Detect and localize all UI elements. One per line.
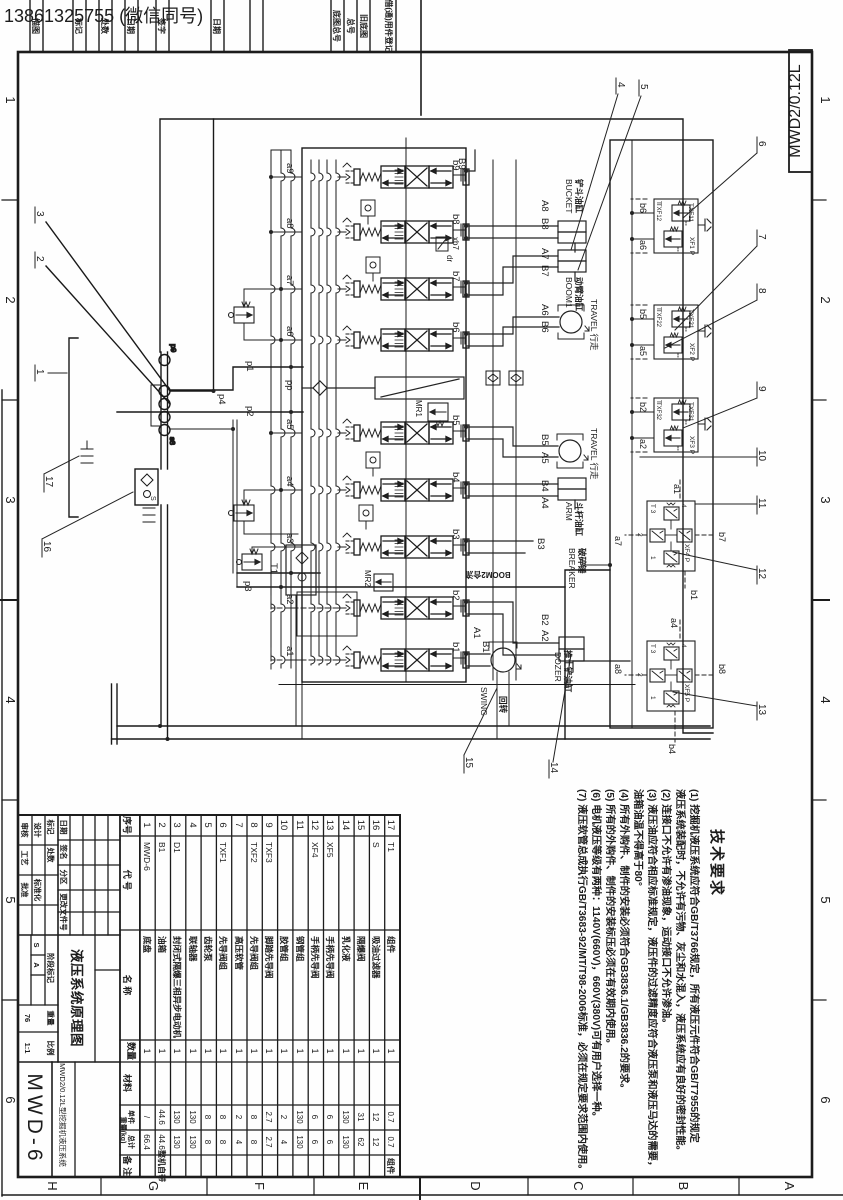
svg-text:4: 4 bbox=[234, 1140, 243, 1145]
T return risers bbox=[117, 725, 710, 727]
svg-text:8: 8 bbox=[756, 288, 767, 294]
zone numbers top bbox=[818, 96, 833, 1103]
svg-text:分区: 分区 bbox=[59, 870, 69, 885]
border outer bottom edge bbox=[1, 390, 3, 1196]
check valve inside block near a5 bbox=[366, 452, 380, 476]
svg-text:A7: A7 bbox=[539, 248, 550, 260]
svg-text:6: 6 bbox=[756, 141, 767, 147]
svg-text:胶管组: 胶管组 bbox=[279, 936, 289, 962]
svg-text:(7) 液压软管总成执行GB/T3683-92/MT/T98: (7) 液压软管总成执行GB/T3683-92/MT/T98-2006标准，必须… bbox=[576, 789, 589, 1174]
svg-text:8: 8 bbox=[218, 1115, 227, 1120]
svg-text:1: 1 bbox=[234, 1048, 244, 1053]
svg-text:xb7: xb7 bbox=[451, 237, 460, 250]
svg-text:处数: 处数 bbox=[46, 847, 56, 863]
svg-text:8: 8 bbox=[249, 1140, 258, 1145]
svg-text:联轴器: 联轴器 bbox=[188, 936, 198, 962]
svg-text:b4: b4 bbox=[667, 744, 677, 754]
p4 line bbox=[171, 390, 214, 392]
wire S2 to T risers bbox=[296, 595, 302, 739]
pump to block supply p2 bbox=[117, 411, 303, 413]
svg-text:1: 1 bbox=[141, 822, 152, 827]
svg-text:隔爆阀: 隔爆阀 bbox=[356, 936, 366, 962]
motor TRAVEL right bbox=[557, 434, 588, 468]
svg-text:D1: D1 bbox=[172, 842, 182, 853]
svg-text:组件: 组件 bbox=[386, 1158, 396, 1174]
svg-text:1: 1 bbox=[356, 1048, 366, 1053]
svg-text:15: 15 bbox=[355, 820, 366, 831]
svg-text:2.7: 2.7 bbox=[264, 1136, 273, 1148]
pedal marks pilot valves bbox=[698, 219, 711, 430]
svg-text:1: 1 bbox=[142, 1048, 152, 1053]
svg-text:8: 8 bbox=[203, 1140, 212, 1145]
svg-text:总号: 总号 bbox=[346, 18, 356, 34]
svg-text:5: 5 bbox=[202, 822, 213, 827]
svg-text:1: 1 bbox=[310, 1048, 320, 1053]
suction diagonal wire 2 bbox=[46, 266, 170, 404]
parts list column lines bbox=[120, 835, 400, 837]
svg-text:更改文件号: 更改文件号 bbox=[59, 893, 69, 931]
wire bucket bbox=[466, 226, 558, 238]
callout 4 bbox=[571, 78, 626, 250]
svg-text:dr: dr bbox=[445, 255, 454, 262]
svg-text:重量: 重量 bbox=[46, 1011, 56, 1027]
svg-text:44.6: 44.6 bbox=[157, 1134, 166, 1150]
svg-text:B5: B5 bbox=[539, 434, 550, 446]
svg-text:封闭式隔爆三相异步电动机: 封闭式隔爆三相异步电动机 bbox=[172, 936, 182, 1039]
pilot valve XF3 bbox=[632, 398, 698, 452]
callout 1 bbox=[34, 365, 67, 381]
svg-text:a3: a3 bbox=[284, 533, 295, 544]
svg-text:旧底图: 旧底图 bbox=[359, 14, 369, 38]
svg-text:手柄先导阀: 手柄先导阀 bbox=[310, 936, 320, 979]
svg-text:1: 1 bbox=[172, 1048, 182, 1053]
pilot valve XF2 bbox=[632, 305, 698, 359]
svg-text:p9: p9 bbox=[169, 344, 178, 352]
svg-text:D: D bbox=[468, 1181, 483, 1190]
svg-text:B1: B1 bbox=[480, 641, 491, 653]
svg-text:1: 1 bbox=[249, 1048, 259, 1053]
svg-text:a2: a2 bbox=[638, 439, 648, 449]
cylinder ARM bbox=[558, 478, 586, 509]
svg-text:BREAKER: BREAKER bbox=[567, 548, 577, 589]
svg-text:a5: a5 bbox=[638, 346, 648, 356]
svg-text:单件: 单件 bbox=[127, 1110, 136, 1124]
zone tick marks right edge bbox=[738, 1177, 740, 1195]
svg-text:6: 6 bbox=[325, 1140, 334, 1145]
valve section a9 bbox=[338, 163, 469, 188]
svg-text:G: G bbox=[146, 1181, 161, 1191]
svg-text:p2: p2 bbox=[244, 406, 255, 417]
suction diagonal wire 1 bbox=[46, 222, 170, 391]
callout 13 bbox=[673, 692, 767, 720]
svg-text:MWD-6: MWD-6 bbox=[23, 1073, 46, 1164]
section feed stubs and junction dots bbox=[271, 177, 302, 660]
svg-text:4: 4 bbox=[3, 696, 18, 703]
svg-text:4: 4 bbox=[279, 1140, 288, 1145]
svg-text:阶段标记: 阶段标记 bbox=[46, 953, 56, 983]
svg-text:XF1 P: XF1 P bbox=[688, 237, 695, 255]
svg-text:p3: p3 bbox=[242, 581, 253, 592]
svg-text:备 注: 备 注 bbox=[122, 1155, 133, 1177]
svg-text:脚踏先导阀: 脚踏先导阀 bbox=[264, 936, 274, 979]
svg-text:TRAVEL 行走: TRAVEL 行走 bbox=[589, 428, 599, 480]
svg-text:8: 8 bbox=[248, 822, 259, 827]
svg-text:A4: A4 bbox=[539, 497, 550, 509]
svg-text:T1: T1 bbox=[268, 563, 279, 574]
svg-text:A6: A6 bbox=[539, 304, 550, 316]
svg-text:MR2: MR2 bbox=[363, 570, 372, 587]
outer boundary polyline bbox=[214, 119, 714, 733]
svg-text:76: 76 bbox=[23, 1014, 32, 1022]
svg-text:手柄先导阀: 手柄先导阀 bbox=[325, 936, 335, 979]
svg-text:b6: b6 bbox=[450, 322, 461, 333]
svg-text:3: 3 bbox=[3, 496, 18, 503]
pump circle gauge bbox=[159, 355, 170, 366]
svg-text:a4: a4 bbox=[669, 618, 679, 628]
svg-text:批准: 批准 bbox=[20, 883, 30, 898]
drive shaft double line bbox=[167, 352, 169, 469]
callout 8 bbox=[665, 284, 767, 348]
svg-text:1: 1 bbox=[218, 1048, 228, 1053]
svg-text:a4: a4 bbox=[284, 476, 295, 487]
motor TRAVEL left bbox=[558, 305, 589, 339]
svg-text:S: S bbox=[149, 496, 156, 501]
svg-text:BOOM1: BOOM1 bbox=[564, 277, 574, 308]
svg-text:H: H bbox=[45, 1181, 60, 1190]
pilot source block S2 bbox=[286, 545, 320, 595]
svg-text:A1: A1 bbox=[471, 627, 482, 639]
compensator under a3 bbox=[237, 549, 263, 570]
svg-text:TXF22: TXF22 bbox=[655, 309, 661, 328]
svg-text:130: 130 bbox=[295, 1135, 304, 1149]
svg-text:B8: B8 bbox=[539, 218, 550, 230]
parts list texts bbox=[119, 816, 137, 1176]
callout 17 bbox=[43, 456, 79, 492]
svg-text:组件: 组件 bbox=[386, 936, 396, 954]
svg-text:a9: a9 bbox=[284, 163, 295, 174]
svg-text:审核: 审核 bbox=[20, 823, 30, 838]
svg-text:5: 5 bbox=[818, 896, 833, 903]
svg-text:7: 7 bbox=[756, 234, 767, 240]
title area texts bbox=[20, 819, 69, 1057]
svg-text:底盘: 底盘 bbox=[142, 936, 152, 954]
svg-text:B2: B2 bbox=[539, 614, 550, 626]
svg-text:F: F bbox=[252, 1182, 267, 1190]
svg-text:TXF3: TXF3 bbox=[264, 842, 274, 863]
svg-text:b7: b7 bbox=[450, 271, 461, 282]
callout 3 bbox=[34, 207, 45, 223]
zone tick marks bottom edge bbox=[2, 199, 18, 201]
cylinder BUCKET bbox=[558, 221, 586, 252]
callout 12 bbox=[673, 552, 767, 584]
svg-text:DOZER: DOZER bbox=[553, 652, 563, 682]
svg-text:17: 17 bbox=[43, 476, 54, 488]
svg-text:TXF11: TXF11 bbox=[687, 203, 694, 222]
pump casing bracket bbox=[151, 385, 160, 426]
svg-text:8: 8 bbox=[218, 1140, 227, 1145]
svg-text:31: 31 bbox=[356, 1113, 365, 1122]
callout 9 bbox=[683, 382, 767, 428]
svg-text:2: 2 bbox=[818, 296, 833, 303]
svg-text:9: 9 bbox=[756, 386, 767, 392]
a-port ladder bus below block bbox=[271, 150, 295, 668]
zone letters right edge bbox=[45, 1181, 797, 1191]
svg-text:130: 130 bbox=[341, 1110, 350, 1124]
svg-text:T: T bbox=[655, 400, 662, 404]
svg-text:钢管组: 钢管组 bbox=[295, 936, 305, 962]
corner registration box MWD2/0.12L bbox=[787, 50, 812, 172]
svg-text:XF3 P: XF3 P bbox=[688, 436, 695, 454]
svg-text:10: 10 bbox=[278, 820, 289, 831]
svg-text:XF5 P: XF5 P bbox=[683, 684, 690, 702]
svg-text:8: 8 bbox=[249, 1115, 258, 1120]
svg-text:1: 1 bbox=[157, 1048, 167, 1053]
svg-text:b8: b8 bbox=[717, 664, 727, 674]
svg-text:66.4: 66.4 bbox=[142, 1134, 151, 1150]
svg-text:BOOM2合流: BOOM2合流 bbox=[465, 570, 510, 580]
valve section a5 bbox=[338, 419, 469, 444]
pump links to p3/T1 bbox=[236, 420, 238, 587]
svg-text:MWD2/0.12L: MWD2/0.12L bbox=[787, 64, 804, 157]
svg-text:A5: A5 bbox=[539, 452, 550, 464]
svg-text:(1) 挖掘机液压系统应符合GB/T3766规定，所有液压元: (1) 挖掘机液压系统应符合GB/T3766规定，所有液压元件符合GB/T795… bbox=[688, 789, 701, 1144]
svg-text:0.7: 0.7 bbox=[386, 1136, 395, 1148]
svg-text:C: C bbox=[571, 1181, 586, 1190]
svg-text:14: 14 bbox=[340, 820, 351, 831]
callout 7 bbox=[675, 230, 767, 330]
T line to pilot bbox=[279, 684, 635, 686]
valve section a3 bbox=[338, 533, 469, 558]
svg-text:代 号: 代 号 bbox=[122, 869, 133, 891]
pilot valve XF1 bbox=[632, 199, 698, 253]
svg-text:高压软管: 高压软管 bbox=[234, 936, 244, 971]
svg-text:齿轮泵: 齿轮泵 bbox=[203, 936, 213, 962]
svg-text:1: 1 bbox=[341, 1048, 351, 1053]
svg-text:b4: b4 bbox=[450, 472, 461, 483]
svg-text:油箱: 油箱 bbox=[157, 936, 167, 954]
a2 section enclosure rect bbox=[297, 592, 357, 636]
svg-text:B7: B7 bbox=[539, 265, 550, 277]
svg-text:1: 1 bbox=[325, 1048, 335, 1053]
svg-text:先导阀组: 先导阀组 bbox=[249, 936, 259, 971]
svg-text:B1: B1 bbox=[157, 842, 167, 853]
svg-text:1: 1 bbox=[649, 556, 656, 560]
svg-text:(3) 液压油应符合相应标准规定，液压件的过滤精度应符合液压: (3) 液压油应符合相应标准规定，液压件的过滤精度应符合液压泵和液压马达的需要， bbox=[646, 789, 659, 1171]
svg-text:2: 2 bbox=[279, 1115, 288, 1120]
svg-text:斗杆油缸: 斗杆油缸 bbox=[574, 502, 584, 537]
svg-text:B6: B6 bbox=[539, 321, 550, 333]
svg-text:B4: B4 bbox=[539, 480, 550, 492]
svg-text:TXF12: TXF12 bbox=[655, 203, 661, 222]
svg-text:重量(kg): 重量(kg) bbox=[119, 1117, 128, 1144]
svg-text:13: 13 bbox=[324, 820, 335, 831]
check valve inside block near a8 bbox=[366, 257, 380, 281]
wire breaker bbox=[466, 541, 533, 553]
svg-text:回转: 回转 bbox=[498, 696, 508, 714]
svg-text:b7: b7 bbox=[717, 532, 727, 542]
valve section a8 bbox=[338, 218, 469, 243]
svg-text:MWD2/0.12L型挖掘机液压系统: MWD2/0.12L型挖掘机液压系统 bbox=[58, 1063, 68, 1167]
svg-text:液压系统装配时，不允许有污物、灰尘和水混入，液压系统应有良好: 液压系统装配时，不允许有污物、灰尘和水混入，液压系统应有良好的密封性能。 bbox=[674, 789, 687, 1156]
svg-text:TRAVEL 行走: TRAVEL 行走 bbox=[589, 299, 599, 351]
wire BOOM2 merge bbox=[581, 564, 610, 566]
svg-text:130: 130 bbox=[341, 1135, 350, 1149]
svg-text:SWING: SWING bbox=[479, 687, 489, 716]
svg-text:XF5: XF5 bbox=[325, 842, 335, 858]
svg-text:s8: s8 bbox=[168, 437, 177, 445]
svg-text:9: 9 bbox=[263, 822, 274, 827]
svg-text:(5) 所有的外购件、制件的安装标压必须在有效期内使用。: (5) 所有的外购件、制件的安装标压必须在有效期内使用。 bbox=[604, 789, 617, 1049]
svg-text:底图总号: 底图总号 bbox=[332, 9, 342, 42]
check valve inside block near a9 bbox=[361, 200, 375, 224]
svg-text:TXF2: TXF2 bbox=[249, 842, 259, 863]
svg-text:液压系统原理图: 液压系统原理图 bbox=[69, 949, 85, 1047]
svg-text:整机自带: 整机自带 bbox=[157, 1149, 167, 1182]
svg-text:吸油过滤器: 吸油过滤器 bbox=[371, 936, 381, 979]
work port lines to actuators bbox=[466, 150, 630, 666]
svg-text:序号: 序号 bbox=[122, 816, 133, 834]
svg-text:11: 11 bbox=[756, 498, 767, 509]
svg-text:8: 8 bbox=[203, 1115, 212, 1120]
svg-text:A: A bbox=[782, 1182, 797, 1191]
compensator under a4 bbox=[229, 500, 255, 521]
svg-text:(2) 连接口不允许有渗油现象，运动接口不允许渗油。: (2) 连接口不允许有渗油现象，运动接口不允许渗油。 bbox=[660, 789, 673, 1028]
zone numbers bottom bbox=[3, 96, 18, 1103]
svg-text:11: 11 bbox=[294, 820, 305, 830]
svg-text:13861325755 (微信同号): 13861325755 (微信同号) bbox=[4, 6, 203, 26]
svg-text:4: 4 bbox=[187, 822, 198, 827]
svg-text:b8: b8 bbox=[450, 214, 461, 225]
valve section a1 bbox=[338, 646, 469, 671]
callout 5 bbox=[578, 80, 649, 270]
svg-text:3: 3 bbox=[34, 211, 45, 217]
parts list row lines bbox=[384, 815, 386, 1177]
svg-text:T 3: T 3 bbox=[649, 644, 656, 654]
svg-text:7: 7 bbox=[233, 822, 244, 827]
cylinder DOZER bbox=[559, 637, 584, 672]
relief valve MR2 bbox=[374, 574, 393, 591]
svg-text:B: B bbox=[676, 1182, 691, 1191]
svg-text:T1: T1 bbox=[386, 842, 396, 852]
wire travel2 bbox=[466, 427, 558, 457]
svg-text:借(通)用件登记: 借(通)用件登记 bbox=[384, 0, 394, 53]
svg-text:1: 1 bbox=[188, 1048, 198, 1053]
svg-text:130: 130 bbox=[172, 1110, 181, 1124]
svg-text:12: 12 bbox=[371, 1113, 380, 1122]
pilot P line bbox=[515, 160, 517, 680]
svg-text:1: 1 bbox=[264, 1048, 274, 1053]
T1 riser bbox=[237, 572, 320, 574]
svg-text:1: 1 bbox=[295, 1048, 305, 1053]
compensator under a7 bbox=[229, 302, 255, 323]
svg-text:62: 62 bbox=[356, 1138, 365, 1147]
border outer right edge bbox=[2, 1194, 843, 1196]
svg-text:p1: p1 bbox=[244, 361, 255, 372]
wire arm bbox=[466, 484, 558, 496]
svg-text:1: 1 bbox=[279, 1048, 289, 1053]
svg-text:a2: a2 bbox=[284, 594, 295, 605]
svg-text:标准化: 标准化 bbox=[33, 878, 43, 902]
svg-text:A8: A8 bbox=[539, 200, 550, 212]
svg-text:b5: b5 bbox=[638, 309, 648, 319]
svg-text:动臂油缸: 动臂油缸 bbox=[574, 277, 584, 312]
svg-text:b1: b1 bbox=[689, 590, 699, 600]
svg-text:b5: b5 bbox=[450, 415, 461, 426]
svg-text:E: E bbox=[356, 1182, 371, 1191]
pilot valve XF5 joystick bbox=[647, 641, 695, 711]
svg-text:a6: a6 bbox=[638, 240, 648, 250]
inlet section pp bbox=[302, 377, 464, 399]
wire travel1 bbox=[466, 317, 559, 346]
svg-text:5: 5 bbox=[3, 896, 18, 903]
svg-text:XF4 P: XF4 P bbox=[683, 544, 690, 562]
svg-text:1: 1 bbox=[818, 96, 833, 103]
wire B9 bbox=[466, 150, 475, 171]
svg-text:5: 5 bbox=[638, 84, 649, 90]
callout 16 bbox=[41, 492, 133, 557]
svg-text:1: 1 bbox=[386, 1048, 396, 1053]
bus feed lines with hump crossings bbox=[311, 160, 340, 665]
svg-text:0.7: 0.7 bbox=[386, 1111, 395, 1123]
cylinder BOOM1 bbox=[558, 250, 586, 281]
inline check square on T line bbox=[486, 371, 500, 385]
svg-text:设计: 设计 bbox=[33, 823, 43, 838]
suction filter S box bbox=[135, 469, 158, 505]
centering mark left edge bbox=[420, 0, 422, 115]
valve section a2 bbox=[338, 594, 469, 619]
internal long line bbox=[405, 138, 407, 682]
callout 2 bbox=[34, 252, 45, 268]
svg-text:17: 17 bbox=[385, 820, 396, 831]
svg-text:2: 2 bbox=[156, 822, 167, 827]
check valve inside block near a4 bbox=[359, 505, 373, 529]
svg-text:a8: a8 bbox=[613, 664, 623, 674]
svg-text:15: 15 bbox=[463, 757, 474, 769]
tank symbol bbox=[81, 441, 93, 463]
svg-text:MR1: MR1 bbox=[414, 400, 423, 417]
svg-text:1: 1 bbox=[34, 369, 45, 375]
svg-text:签名: 签名 bbox=[59, 844, 69, 860]
svg-text:名 称: 名 称 bbox=[122, 975, 133, 996]
inline check square on P line bbox=[509, 371, 523, 385]
svg-text:16: 16 bbox=[41, 541, 52, 553]
svg-text:6: 6 bbox=[217, 822, 228, 827]
svg-text:XF4: XF4 bbox=[310, 842, 320, 858]
svg-text:日期: 日期 bbox=[212, 18, 222, 34]
svg-text:日期: 日期 bbox=[59, 820, 69, 835]
svg-text:6: 6 bbox=[325, 1115, 334, 1120]
svg-text:T 3: T 3 bbox=[649, 504, 656, 514]
svg-text:6: 6 bbox=[310, 1115, 319, 1120]
svg-text:S: S bbox=[371, 842, 381, 848]
callout 14 bbox=[548, 655, 571, 778]
svg-text:TXF1: TXF1 bbox=[218, 842, 228, 863]
svg-text:先导阀组: 先导阀组 bbox=[218, 936, 228, 971]
svg-text:(6) 电机液压等级有两种：1140V(660V)，660V: (6) 电机液压等级有两种：1140V(660V)，660V(380V)可有用户… bbox=[590, 789, 603, 1122]
svg-text:(4) 所有外购件、制件的安装必须符合GB3836.1/GB: (4) 所有外购件、制件的安装必须符合GB3836.1/GB3836.2的要求。 bbox=[618, 789, 631, 1094]
svg-text:12: 12 bbox=[756, 568, 767, 580]
motor SWING bbox=[489, 642, 521, 672]
pilot dashed lines a2 a1 bbox=[271, 596, 346, 672]
svg-text:a7: a7 bbox=[284, 275, 295, 286]
svg-text:b1: b1 bbox=[450, 642, 461, 653]
valve section a4 bbox=[338, 476, 469, 501]
svg-text:技术要求: 技术要求 bbox=[708, 829, 726, 897]
port labels b9-b1 row bbox=[450, 160, 461, 653]
svg-text:1: 1 bbox=[649, 696, 656, 700]
callout 11 bbox=[696, 496, 767, 514]
svg-text:材料: 材料 bbox=[122, 1073, 133, 1092]
